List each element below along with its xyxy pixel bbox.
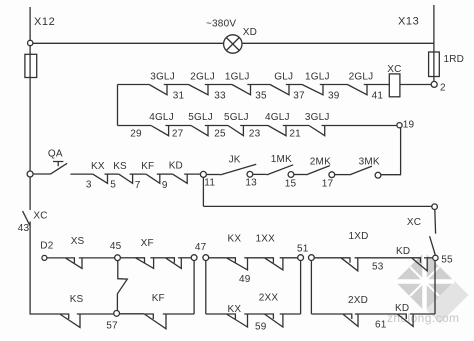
- wire: node 19 drop to MK row: [381, 128, 401, 175]
- svg-text:2XD: 2XD: [348, 295, 368, 306]
- node: right terminal above XC switch: [432, 204, 438, 210]
- svg-text:5: 5: [110, 179, 116, 190]
- wire: right rail to node 2: [433, 77, 435, 82]
- pushbutton QA: [51, 162, 68, 175]
- wire: [206, 313, 227, 315]
- contact 4GLJ (29): [151, 126, 169, 136]
- terminal D2: [42, 255, 47, 260]
- svg-text:KX: KX: [228, 234, 242, 245]
- wire: [286, 84, 302, 86]
- svg-text:1XD: 1XD: [349, 231, 369, 242]
- svg-text:57: 57: [106, 321, 118, 332]
- wire: [165, 125, 191, 127]
- wire: node 47 left drop: [193, 261, 195, 315]
- wire: [253, 173, 267, 175]
- svg-text:KX: KX: [228, 304, 242, 315]
- wire: to node 51 drops: [280, 313, 301, 315]
- wire: KD to node 11: [184, 173, 200, 175]
- contact 1XX: [264, 258, 283, 270]
- contact KF (row B): [144, 314, 166, 329]
- node 47 left: [191, 255, 197, 261]
- svg-text:29: 29: [130, 129, 142, 140]
- svg-text:XC: XC: [33, 210, 47, 221]
- wire: row1-row2 left corner drop: [117, 85, 119, 126]
- svg-text:KS: KS: [113, 161, 127, 172]
- svg-text:31: 31: [173, 90, 185, 101]
- svg-text:11: 11: [204, 178, 215, 189]
- wire: left rail fuse to QA node: [29, 78, 31, 172]
- node: QA pivot wire: [33, 173, 50, 175]
- wire: [247, 84, 270, 86]
- wire: D2 to XS: [47, 257, 66, 259]
- wire: top bus right of lamp: [242, 42, 434, 44]
- node 51 right: [309, 255, 315, 261]
- node 51 left: [298, 255, 304, 261]
- svg-text:2: 2: [440, 83, 446, 94]
- svg-text:1XX: 1XX: [256, 234, 276, 245]
- svg-text:61: 61: [375, 319, 387, 330]
- svg-text:XC: XC: [387, 64, 401, 75]
- contact 1GLJ (39): [302, 85, 323, 95]
- wire: row2 left segment: [118, 125, 152, 127]
- contact 2GLJ (41): [348, 85, 368, 95]
- contact KD (row B): [397, 314, 413, 326]
- wire 53: [355, 257, 412, 259]
- svg-text:47: 47: [195, 242, 207, 253]
- svg-text:17: 17: [322, 179, 334, 190]
- node 45: [115, 255, 121, 261]
- svg-text:41: 41: [372, 90, 384, 101]
- wire: [209, 257, 227, 259]
- wire: left rail lower to bottom row: [30, 222, 60, 315]
- svg-text:KF: KF: [152, 293, 165, 304]
- svg-text:33: 33: [214, 90, 226, 101]
- wire: node 51 left drop: [300, 261, 302, 315]
- lamp XD: [224, 35, 242, 53]
- contact KS (5): [119, 174, 133, 183]
- wire: [294, 174, 306, 176]
- wire: KS to node 57: [77, 313, 114, 315]
- contact 1GLJ (35): [232, 85, 251, 95]
- svg-text:2GLJ: 2GLJ: [190, 72, 215, 83]
- svg-text:4GLJ: 4GLJ: [149, 112, 174, 123]
- wire: [320, 84, 348, 86]
- wire: left rail top segment: [29, 7, 31, 41]
- svg-text:KX: KX: [91, 161, 105, 172]
- svg-text:1RD: 1RD: [444, 54, 465, 65]
- svg-text:~380V: ~380V: [206, 18, 236, 29]
- svg-text:KD: KD: [395, 303, 409, 314]
- svg-text:3MK: 3MK: [359, 156, 380, 167]
- node 47 right: [203, 255, 209, 261]
- svg-text:19: 19: [403, 119, 415, 130]
- node 15 terminal: [288, 172, 294, 178]
- svg-text:3GLJ: 3GLJ: [305, 112, 330, 123]
- wire: row2 to node 19: [322, 125, 397, 127]
- svg-text:53: 53: [372, 262, 384, 273]
- svg-text:KS: KS: [70, 294, 84, 305]
- svg-text:37: 37: [293, 90, 305, 101]
- wire: right rail node 55 to bottom row: [434, 261, 436, 314]
- wire: [240, 125, 268, 127]
- watermark: [387, 252, 469, 325]
- contact 4GLJ (23): [268, 126, 286, 136]
- svg-text:15: 15: [285, 178, 297, 189]
- svg-text:2MK: 2MK: [310, 156, 331, 167]
- wire: [205, 125, 228, 127]
- svg-text:3GLJ: 3GLJ: [150, 72, 175, 83]
- wire: [150, 257, 165, 259]
- svg-text:3: 3: [86, 180, 92, 191]
- switch XC (43) on left rail: [23, 211, 30, 225]
- wire: KF to node 47 drops: [163, 313, 194, 315]
- wire 49: [244, 257, 264, 259]
- wire: [205, 84, 232, 86]
- contact KD (9): [173, 174, 188, 183]
- contact GLJ (37): [270, 85, 289, 95]
- node 19: [397, 123, 402, 128]
- contact 5GLJ (27): [191, 126, 208, 136]
- svg-text:KF: KF: [141, 161, 154, 172]
- svg-text:7: 7: [135, 180, 141, 191]
- svg-text:1MK: 1MK: [271, 154, 292, 165]
- svg-text:39: 39: [328, 90, 340, 101]
- wire: [311, 313, 342, 315]
- wire: [157, 173, 173, 175]
- wire: node 51 right drop: [310, 261, 312, 315]
- switch JK: [220, 164, 256, 175]
- wire: top bus left of lamp: [33, 42, 224, 44]
- contact XS: [65, 258, 82, 269]
- svg-text:35: 35: [255, 90, 267, 101]
- contact KD (row A): [412, 258, 428, 271]
- wire: node 45 to 57 jog: [117, 261, 127, 311]
- wire: [314, 257, 341, 259]
- svg-text:KD: KD: [169, 161, 183, 172]
- connector XC (top): [389, 74, 400, 97]
- svg-text:4GLJ: 4GLJ: [265, 112, 290, 123]
- svg-text:5GLJ: 5GLJ: [224, 112, 249, 123]
- svg-text:XS: XS: [71, 236, 85, 247]
- wire 61: [355, 313, 398, 315]
- wire 59: [244, 313, 264, 315]
- fuse 1RD: [429, 52, 440, 77]
- svg-text:27: 27: [172, 129, 184, 140]
- wire: to node 51: [280, 257, 298, 259]
- node 55: [433, 255, 438, 260]
- svg-text:GLJ: GLJ: [274, 72, 293, 83]
- svg-text:QA: QA: [48, 148, 63, 159]
- contact KS (row B): [60, 314, 80, 327]
- node 17 terminal: [329, 172, 335, 178]
- contact 2GLJ (33): [189, 85, 209, 95]
- node: junction X12 on left rail: [28, 40, 33, 45]
- node 11: [200, 171, 206, 177]
- switch 1MK: [267, 165, 294, 175]
- switch 2MK: [306, 166, 330, 175]
- node: QA branch on left rail: [27, 171, 33, 177]
- svg-text:55: 55: [441, 254, 453, 265]
- svg-text:5GLJ: 5GLJ: [188, 112, 213, 123]
- svg-text:2XX: 2XX: [259, 293, 279, 304]
- contact 3GLJ (21): [309, 126, 325, 136]
- svg-text:X12: X12: [34, 16, 55, 28]
- terminal: 3MK right: [375, 172, 381, 178]
- svg-text:KD: KD: [396, 246, 410, 257]
- svg-text:9: 9: [162, 180, 168, 191]
- svg-text:43: 43: [18, 223, 30, 234]
- switch 3MK: [350, 166, 372, 175]
- wire: left rail from X12 node to fuse: [29, 46, 31, 55]
- contact XF (second): [165, 258, 181, 269]
- wire: [105, 173, 119, 175]
- wire: node 47 right drop: [205, 261, 207, 315]
- wire: right rail top segment: [433, 5, 435, 52]
- wire: node 2 to connector XC: [400, 84, 431, 86]
- svg-text:49: 49: [239, 274, 251, 285]
- svg-text:21: 21: [289, 129, 301, 140]
- fuse FU (left rail): [25, 54, 37, 77]
- node 2: [431, 81, 437, 87]
- wire: KD to node 55: [424, 257, 433, 259]
- svg-text:23: 23: [249, 129, 261, 140]
- wire: node 57 to KF: [120, 313, 145, 315]
- svg-text:25: 25: [214, 129, 226, 140]
- wire: [283, 125, 309, 127]
- contact KX (3): [93, 174, 108, 183]
- svg-text:1GLJ: 1GLJ: [225, 72, 250, 83]
- wire: XS to node 45: [79, 257, 115, 259]
- wire: [130, 173, 146, 175]
- contact XF (first): [136, 258, 154, 269]
- contact 1XD: [341, 258, 358, 271]
- svg-text:D2: D2: [40, 241, 53, 252]
- svg-text:X13: X13: [398, 16, 419, 28]
- svg-text:XD: XD: [243, 27, 257, 38]
- switch XC (right): [430, 210, 436, 256]
- node 57: [114, 311, 120, 317]
- wire: node 11 to JK: [206, 174, 220, 176]
- wire: node 11 drop: [202, 177, 204, 206]
- svg-text:XC: XC: [407, 217, 421, 228]
- contact KF (7): [146, 174, 160, 183]
- svg-text:XF: XF: [141, 238, 154, 249]
- wire: contact 41 to connector XC: [364, 84, 390, 86]
- svg-text:13: 13: [245, 177, 257, 188]
- contact KX (row B): [226, 314, 247, 327]
- contact 2XX: [264, 314, 283, 327]
- wire: KD to right rail: [410, 313, 435, 315]
- wire: [164, 84, 189, 86]
- svg-text:1GLJ: 1GLJ: [305, 72, 330, 83]
- svg-text:45: 45: [110, 241, 122, 252]
- contact KX (row A): [226, 258, 247, 270]
- svg-text:59: 59: [255, 322, 267, 333]
- wire: row1 left segment: [118, 84, 150, 86]
- contact 3GLJ (31): [149, 85, 167, 95]
- wire: middle bus to right terminal: [203, 205, 432, 207]
- contact 2XD: [343, 314, 358, 326]
- svg-text:JK: JK: [229, 155, 241, 166]
- node 13 terminal: [247, 171, 253, 177]
- wire: to node 47: [178, 257, 191, 259]
- svg-text:51: 51: [297, 243, 309, 254]
- wire: QA to KX: [70, 173, 92, 175]
- svg-text:2GLJ: 2GLJ: [349, 72, 374, 83]
- wire: left rail QA node to XC switch: [29, 177, 31, 210]
- wire: [120, 257, 135, 259]
- contact 5GLJ (25): [228, 126, 243, 136]
- wire: [335, 174, 350, 176]
